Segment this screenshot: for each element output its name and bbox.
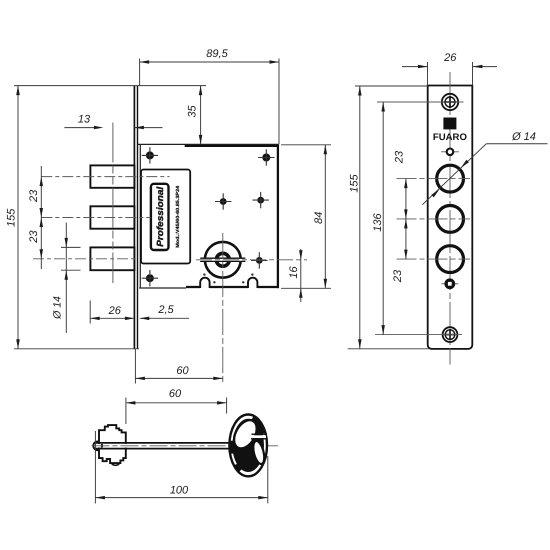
svg-text:89,5: 89,5 (206, 48, 228, 60)
dim 16 (300, 249, 302, 302)
bolt hole 2 (437, 206, 464, 233)
key bow ridge band (252, 435, 266, 438)
notch center marks (203, 273, 205, 275)
svg-text:FUARO: FUARO (433, 132, 467, 143)
svg-text:60: 60 (176, 365, 189, 377)
dim 155 left (14, 85, 206, 87)
key shaft (95, 442, 230, 444)
faceplate (front view, edge-on) (133, 86, 135, 349)
key bow rim merge bottom-left (236, 464, 241, 470)
screw post bottom-left (146, 274, 154, 282)
cylinder horizontal centerline (196, 259, 307, 261)
dim 155 right (355, 85, 428, 87)
faceplate plan view (428, 86, 473, 349)
dim 35 (200, 86, 202, 145)
key bow rim merge top-right (252, 418, 263, 433)
svg-text:13: 13 (78, 114, 91, 126)
mounting notch right (U-cutout) (248, 278, 257, 288)
lock body case outline (138, 143, 279, 145)
bolt hole 1 (437, 165, 464, 192)
svg-text:100: 100 (170, 485, 189, 497)
key bow outer oval (229, 415, 267, 477)
bolt 1 (top deadbolt) (90, 165, 134, 187)
screw hole top (436, 101, 464, 103)
bolt 2 centerline (41, 217, 151, 219)
dim 23 lower (40, 229, 42, 269)
lock body cover plate (thick outline) (185, 145, 279, 147)
dim 23 right lower (405, 219, 407, 259)
key bow shaft junction (229, 441, 235, 454)
key bow hole (229, 416, 261, 452)
screw post near cylinder (256, 257, 263, 264)
svg-text:Ø 14: Ø 14 (511, 131, 536, 143)
svg-text:35: 35 (187, 105, 199, 118)
dim 2,5 faceplate thickness (140, 317, 189, 319)
svg-text:136: 136 (372, 212, 384, 231)
dim 136 (377, 101, 464, 103)
mounting notch left (U-cutout) (200, 278, 209, 288)
screw post middle (220, 198, 227, 205)
svg-text:23: 23 (394, 150, 406, 164)
svg-text:Ø 14: Ø 14 (52, 296, 64, 320)
screw post top-right (262, 154, 270, 162)
cylinder vertical centerline (222, 233, 224, 384)
hole 1 centerline (397, 178, 471, 180)
key cylinder outer circle (205, 242, 241, 278)
screw post top-left (146, 151, 154, 159)
bolt 3 centerline (33, 258, 137, 260)
svg-text:23: 23 (28, 230, 40, 244)
screw post middle-right (257, 197, 264, 204)
key bit upper (99, 425, 126, 444)
svg-text:155: 155 (6, 208, 18, 227)
svg-text:23: 23 (28, 189, 40, 203)
faceplate vertical centerline (449, 72, 451, 365)
dim 26 front (89, 301, 91, 324)
dim 100 key (94, 431, 96, 503)
dim 60 key (125, 398, 127, 425)
svg-text:Mod.:V45/60-60.85.3P24: Mod.:V45/60-60.85.3P24 (175, 185, 180, 248)
svg-text:155: 155 (349, 173, 361, 192)
dim 13 (64, 127, 96, 129)
screw hole bottom (443, 327, 458, 342)
square hole (441, 283, 458, 285)
dim dia 14 leader (486, 143, 547, 145)
dim 60 backset (134, 349, 136, 384)
svg-text:26: 26 (443, 52, 457, 64)
dim 89,5 (139, 59, 141, 86)
key bow black interior (232, 419, 264, 472)
hole 2 centerline (397, 218, 471, 220)
key bit bottom arc (112, 463, 120, 465)
keyway slot (201, 258, 245, 261)
bolt 1 centerline (41, 176, 169, 178)
FUARO logo square (443, 118, 456, 130)
svg-text:26: 26 (108, 305, 122, 317)
key centerline (92, 445, 279, 447)
hole 3 centerline (397, 258, 471, 260)
svg-text:16: 16 (288, 266, 300, 279)
dim 23 upper (40, 166, 42, 229)
key cylinder inner ring (216, 253, 229, 266)
bolt 3 (bottom deadbolt) (90, 247, 134, 270)
key tip (93, 441, 102, 450)
bolt 2 (middle deadbolt) (90, 206, 134, 228)
svg-text:2,5: 2,5 (157, 304, 174, 316)
svg-text:Professional: Professional (155, 186, 165, 247)
label plate box (141, 170, 190, 264)
dim 23 right upper (405, 179, 407, 219)
svg-text:23: 23 (392, 269, 404, 283)
key bit lower (99, 448, 126, 464)
vertical extension line for dim 13 (112, 123, 114, 284)
dim dia 14 bolt (61, 246, 81, 248)
dim 26 faceplate width (427, 62, 429, 86)
small keyhole (441, 151, 459, 153)
bolt hole 3 (437, 246, 464, 273)
key bow lower oval (251, 440, 266, 465)
dim 84 (281, 144, 331, 146)
Professional badge (151, 184, 169, 250)
svg-text:84: 84 (313, 212, 325, 224)
svg-text:60: 60 (169, 388, 182, 400)
